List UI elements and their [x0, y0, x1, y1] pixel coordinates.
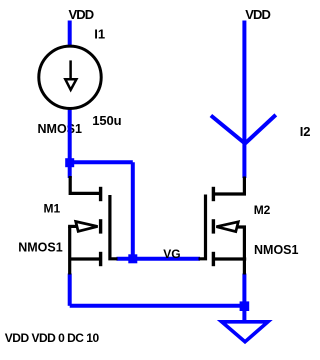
junction node A (M1 drain / mirror input)	[65, 158, 74, 167]
junction node at ground	[240, 301, 250, 311]
svg-text:VDD: VDD	[69, 7, 94, 22]
wire M1 source lead down to ground rail	[68, 274, 72, 306]
wire node A horizontal to mid vertical	[70, 160, 133, 164]
ground	[222, 322, 268, 342]
wire I1 bottom to node A	[68, 110, 72, 164]
svg-text:I1: I1	[94, 27, 105, 42]
wire ground node to ground symbol	[242, 306, 246, 322]
transistor M2 source lead (black part)	[243, 259, 246, 275]
transistor M1 bulk arrow	[76, 222, 98, 232]
svg-text:NMOS1: NMOS1	[18, 241, 63, 255]
transistor M2 drain stub and lead	[214, 177, 244, 195]
transistor M1 drain contact bar	[99, 187, 102, 201]
transistor M2 bulk arrow	[216, 222, 238, 232]
current source I1 arrow shaft	[69, 60, 72, 79]
junction node VG	[128, 254, 137, 263]
svg-text:M1: M1	[44, 201, 61, 215]
transistor M1 source stub	[70, 257, 100, 260]
svg-text:VDD VDD 0 DC 10: VDD VDD 0 DC 10	[5, 331, 100, 345]
svg-text:M2: M2	[254, 203, 271, 217]
transistor M1 source contact bar	[99, 252, 102, 266]
transistor M2 bulk stub and tie	[238, 227, 245, 259]
transistor M1 drain lead and stub	[70, 176, 99, 193]
transistor M2 middle contact bar	[212, 219, 215, 233]
transistor M1 bulk stub	[68, 225, 76, 228]
svg-text:150u: 150u	[92, 113, 121, 128]
wire node A to M1 drain lead	[68, 163, 72, 178]
transistor M2 drain contact bar	[212, 187, 215, 201]
transistor M1 bulk-source tie	[68, 226, 71, 259]
wire M2 source lead down to ground node	[242, 274, 246, 306]
current source I1 circle	[39, 46, 101, 108]
svg-text:I2: I2	[300, 124, 311, 139]
transistor M2 gate plate with corner to VG	[199, 195, 206, 259]
svg-text:NMOS1: NMOS1	[38, 122, 83, 136]
current arrow I2 right arm	[245, 115, 276, 144]
svg-text:VG: VG	[163, 247, 180, 261]
wire VG net between M1 gate and M2 gate	[117, 257, 201, 261]
current source I1 arrowhead	[65, 79, 76, 90]
wire mid vertical down to node VG	[131, 162, 135, 259]
transistor M1 middle contact bar	[99, 219, 102, 233]
transistor M2 source stub	[212, 257, 246, 260]
wire ground rail	[70, 304, 245, 308]
wire VDD right lead down through I2 to M2 drain	[242, 21, 246, 179]
transistor M1 source lead (black part)	[68, 259, 71, 275]
svg-text:NMOS1: NMOS1	[254, 243, 299, 257]
transistor M1 gate plate with corner to VG	[110, 195, 118, 259]
wire VDD lead to I1 top	[68, 21, 72, 47]
svg-text:VDD: VDD	[245, 7, 270, 22]
current arrow I2 left arm	[211, 116, 245, 144]
transistor M2 source contact bar	[212, 252, 215, 266]
